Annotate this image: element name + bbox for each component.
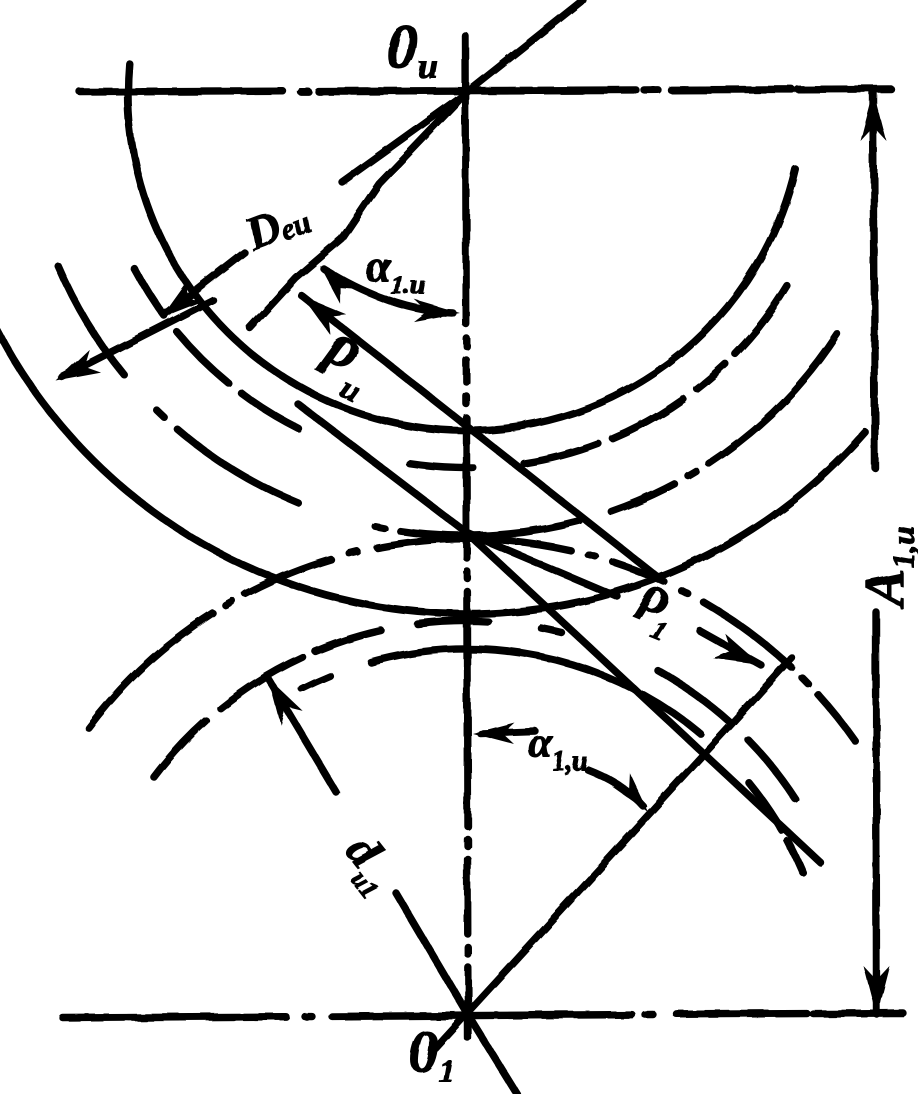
d_u1 diameter line through O_1 xyxy=(268,678,517,1094)
diagonal line through O_1 (alpha arm) xyxy=(435,658,792,1048)
upper gear root circle arc U1 (solid) xyxy=(128,64,795,431)
lower gear root circle arc (solid with broken ends) xyxy=(302,649,805,877)
D_eu arrow segment to dashed circle xyxy=(166,252,244,313)
d_u1 arrowhead xyxy=(268,678,303,724)
bottom alpha straight arrow to axis xyxy=(480,731,535,733)
vertical center axis (dash-dot) xyxy=(466,36,469,1038)
D_eu leader second branch xyxy=(250,93,466,328)
top alpha angle arc arrow xyxy=(324,269,453,313)
upper gear base circle arc U2 (dashed) xyxy=(135,269,788,468)
top horizontal axis through O_u (dash-dot) xyxy=(80,89,891,92)
label rho_u xyxy=(306,309,389,409)
rho_1 radius-of-curvature line xyxy=(467,533,761,665)
upper gear outside circle arc D_eu (solid) xyxy=(0,329,865,614)
rho_u radius-of-curvature line xyxy=(302,296,659,578)
D_eu arrow segment to outer circle xyxy=(62,300,213,377)
rho_1 arrowhead xyxy=(713,633,761,665)
bottom horizontal axis through O_1 (dash-dot) xyxy=(63,1013,903,1018)
lower gear pitch circle arc (dash-dot) xyxy=(88,539,855,741)
upper gear pitch circle arc U3 (dash-dot) xyxy=(58,266,837,536)
dimension arrowhead down xyxy=(864,966,890,1016)
rho_u arrowhead xyxy=(302,296,346,335)
label rho_1 xyxy=(625,564,689,649)
lower gear base circle arc (dashed) xyxy=(154,621,796,800)
D_eu diameter line through O_u xyxy=(342,0,583,182)
line of action through pitch point xyxy=(298,404,820,862)
bottom alpha curved arrow to diagonal xyxy=(588,770,643,806)
dimension arrowhead up xyxy=(861,91,887,141)
right dimension line A_1,u xyxy=(874,92,877,1014)
